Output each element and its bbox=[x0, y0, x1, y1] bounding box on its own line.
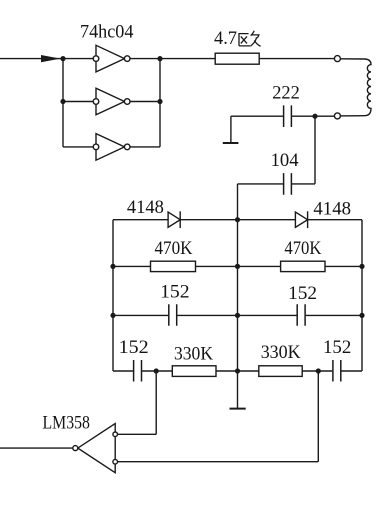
capacitor C222 bbox=[284, 105, 292, 127]
wire row G middle bbox=[196, 265, 281, 267]
capacitor C152 mid right bbox=[297, 304, 305, 326]
svg-text:104: 104 bbox=[271, 150, 299, 171]
node output bus row B bbox=[157, 99, 162, 104]
node opamp plus feed bbox=[154, 368, 159, 373]
node coil bottom junction bbox=[312, 114, 317, 119]
wire vertical input bus x63 bbox=[62, 59, 64, 147]
wire vertical x156 bbox=[155, 371, 157, 434]
wire left rail bbox=[112, 220, 114, 371]
node diode row center bbox=[235, 217, 240, 222]
wire row G right lead bbox=[325, 265, 362, 267]
svg-text:4148: 4148 bbox=[127, 197, 164, 218]
wire opamp output bbox=[0, 447, 73, 449]
ground G1 bar bbox=[223, 142, 239, 144]
wire U1A output bbox=[130, 58, 215, 60]
svg-text:222: 222 bbox=[272, 82, 300, 103]
wire right rail bbox=[361, 220, 363, 371]
wire row I middle bbox=[216, 370, 259, 372]
wire C104 drop to diode row bbox=[237, 184, 239, 220]
wire left rail corner to C152 bottom left bbox=[113, 370, 133, 372]
wire C104 right lead bbox=[292, 183, 315, 185]
node middle rail row I bbox=[235, 368, 240, 373]
inductor coil bbox=[340, 59, 371, 116]
svg-text:152: 152 bbox=[288, 283, 317, 304]
diode D1 4148 bbox=[168, 211, 180, 228]
coil terminal top bbox=[334, 56, 340, 62]
node left rail row G bbox=[110, 264, 115, 269]
node right rail row G bbox=[359, 264, 364, 269]
resistor R 4.7ohm body bbox=[215, 53, 259, 64]
arrow on input wire bbox=[41, 55, 61, 62]
wire row H middle bbox=[177, 314, 296, 316]
inverter U1C bbox=[93, 134, 130, 161]
svg-text:152: 152 bbox=[160, 281, 190, 302]
svg-text:330K: 330K bbox=[261, 342, 301, 363]
node input bus row B bbox=[60, 99, 65, 104]
capacitor C152 bottom right bbox=[333, 360, 341, 382]
node right rail row H bbox=[359, 313, 364, 318]
wire ground corner to C222 bbox=[231, 115, 283, 117]
op-amp U2 LM358 bbox=[73, 424, 118, 473]
svg-text:LM358: LM358 bbox=[43, 413, 90, 434]
node left rail row H bbox=[110, 313, 115, 318]
label ohm CJK glyph bbox=[238, 31, 260, 47]
wire vertical output bus x160 bbox=[159, 59, 161, 147]
svg-text:74hc04: 74hc04 bbox=[80, 21, 134, 42]
node middle rail row G bbox=[235, 264, 240, 269]
wire U1C output bbox=[130, 146, 160, 148]
wire middle rail bbox=[237, 220, 239, 409]
capacitor C152 mid left bbox=[169, 304, 177, 326]
wire C104 left lead bbox=[238, 183, 284, 185]
svg-text:152: 152 bbox=[119, 337, 149, 358]
wire inverter U1C input bbox=[63, 146, 93, 148]
resistor R 330K left body bbox=[172, 366, 216, 377]
node output junction row A bbox=[157, 56, 162, 61]
inverter U1A bbox=[93, 45, 130, 72]
diode D2 4148 bbox=[295, 211, 307, 228]
inverter U1B bbox=[93, 88, 130, 115]
wire R330K right to C152 bottom right bbox=[302, 370, 332, 372]
node input junction x63 bbox=[60, 56, 65, 61]
svg-text:330K: 330K bbox=[174, 344, 213, 365]
wire diode row right bbox=[308, 219, 362, 221]
node opamp minus feed bbox=[316, 368, 321, 373]
ground G2 bar bbox=[230, 408, 246, 410]
resistor R 330K right body bbox=[259, 366, 302, 377]
wire row H left lead bbox=[113, 314, 168, 316]
wire vertical x315 bbox=[314, 116, 316, 184]
svg-text:152: 152 bbox=[323, 337, 351, 358]
wire input left to inverter bank bbox=[0, 58, 93, 60]
coil terminal bottom bbox=[334, 113, 340, 119]
wire vertical x318 bbox=[317, 371, 319, 462]
wire inverter U1B input bbox=[63, 101, 93, 103]
wire diode row left bbox=[113, 219, 168, 221]
wire row H right lead bbox=[306, 314, 362, 316]
wire C152br to right rail bbox=[341, 370, 362, 372]
node middle rail row H bbox=[235, 313, 240, 318]
svg-text:4.7: 4.7 bbox=[214, 28, 237, 49]
svg-text:470K: 470K bbox=[284, 238, 321, 259]
wire resistor to coil terminal bbox=[259, 58, 334, 60]
wire opamp minus input bbox=[118, 461, 319, 463]
resistor R 470K left body bbox=[151, 261, 196, 271]
wire C222 to coil bottom terminal bbox=[292, 115, 334, 117]
wire diode row middle bbox=[180, 219, 295, 221]
svg-text:4148: 4148 bbox=[313, 199, 351, 220]
svg-text:470K: 470K bbox=[155, 238, 193, 259]
wire row G left lead bbox=[113, 265, 151, 267]
wire opamp plus input bbox=[118, 433, 157, 435]
wire U1B output bbox=[130, 101, 160, 103]
ground G1 stem bbox=[230, 116, 232, 143]
capacitor C152 bottom left bbox=[134, 360, 142, 382]
wire C152bl to R330K left bbox=[142, 370, 172, 372]
resistor R 470K right body bbox=[281, 261, 325, 271]
capacitor C104 bbox=[284, 173, 292, 195]
